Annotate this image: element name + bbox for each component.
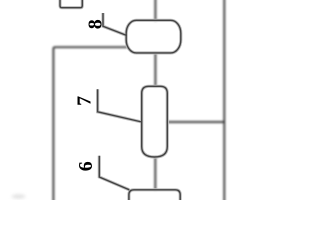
crisp dark pass for vessels, box and leader lines (60, 0, 181, 202)
wire vessel 7 right outlet to right riser (167, 121, 224, 123)
svg-text:6: 6 (75, 161, 97, 171)
wire vessel 7 to vessel 6 (154, 157, 156, 190)
svg-text:8: 8 (85, 19, 107, 29)
faint smudge bottom-left (12, 194, 26, 198)
wire vessel 8 to vessel 7 (154, 53, 156, 87)
wire right riser (223, 0, 225, 202)
soft halo pass for vessels, box and leader lines (60, 0, 181, 202)
svg-text:7: 7 (74, 96, 96, 106)
wire recycle loop: horizontal run then left riser down (53, 47, 127, 202)
wire top feed into vessel 8 (154, 0, 156, 21)
